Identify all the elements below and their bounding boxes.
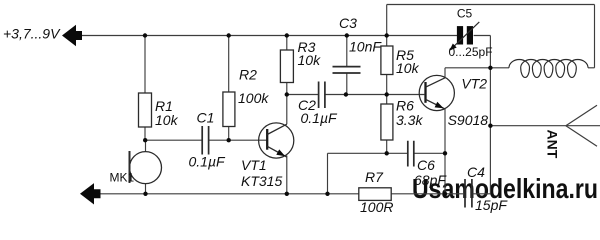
wire mic top stem [145, 140, 147, 151]
node C3/C2 wire [344, 92, 348, 96]
svg-text:ANT: ANT [545, 130, 561, 159]
wire C1 right to VT1 base [209, 139, 267, 141]
wire bottom ground rail left [100, 193, 359, 195]
capacitor C6 plates [408, 141, 414, 167]
wire bottom rail R7 to C4 [391, 193, 464, 195]
node R6/C6 [385, 151, 389, 155]
capacitor C1 plates [202, 126, 208, 155]
wire top loop riser [386, 5, 388, 36]
wire R1 top riser [144, 36, 146, 94]
wire C6 right to emitter [414, 152, 445, 154]
resistor R5 [381, 46, 393, 75]
node collector VT1 [285, 92, 289, 96]
wire R3 top riser [286, 36, 288, 51]
svg-text:KT315: KT315 [241, 173, 282, 189]
svg-text:S9018: S9018 [448, 112, 489, 128]
trimmer C5 adjustment arrow [449, 22, 479, 51]
wire R1 bottom to base wire [144, 127, 146, 140]
node R1/C1/mic [143, 138, 147, 142]
svg-text:100R: 100R [360, 199, 393, 213]
svg-text:C6: C6 [417, 157, 435, 173]
transistor VT1 [259, 123, 294, 194]
node antenna tap [488, 124, 492, 128]
node emitter VT2/R7 [443, 192, 447, 196]
svg-text:10k: 10k [396, 60, 420, 76]
wire R2 bottom riser [228, 127, 230, 141]
svg-text:C1: C1 [197, 110, 215, 126]
svg-text:15pF: 15pF [475, 197, 508, 213]
wire top supply rail [81, 35, 458, 37]
wire R6 bottom riser [386, 140, 388, 153]
wire coil right end [588, 67, 595, 69]
antenna ANT symbol [566, 105, 600, 146]
node ground/C6 riser [325, 192, 329, 196]
wire node to R6 top [386, 95, 388, 105]
wire VT2 base horizontal [387, 94, 425, 96]
wire top loop right side down [594, 5, 596, 68]
wire R5 top riser [386, 36, 388, 47]
svg-text:R7: R7 [365, 169, 384, 185]
wire VT2 emitter riser [444, 109, 446, 194]
svg-text:C4: C4 [467, 164, 485, 180]
svg-text:MK1: MK1 [110, 171, 135, 185]
wire base/C1 horizontal (R1 node to C1) [145, 139, 202, 141]
trimmer capacitor C5 plates [457, 26, 473, 44]
svg-text:10k: 10k [155, 112, 179, 128]
svg-text:VT1: VT1 [241, 157, 267, 173]
wire coil left feed [490, 67, 509, 69]
svg-text:+3,7...9V: +3,7...9V [3, 26, 61, 42]
svg-text:0.1µF: 0.1µF [301, 110, 339, 126]
wire C4 right to antenna riser [473, 193, 491, 195]
power arrow +3,7...9V [62, 25, 82, 46]
wire C3 bottom riser [346, 73, 348, 94]
wire R5 bottom to node [386, 75, 388, 95]
node ground/emitter VT1 [285, 192, 289, 196]
wire C6 line left (ground to C6) [328, 152, 408, 154]
svg-text:3.3k: 3.3k [396, 112, 423, 128]
wire mic bottom stem [145, 184, 147, 194]
resistor R2 [223, 92, 235, 127]
resistor R3 [280, 50, 293, 83]
wire ground riser to C6 line [327, 153, 329, 194]
svg-text:C5: C5 [457, 7, 473, 21]
node ground/mic [143, 192, 147, 196]
wire collector node to C2 [287, 94, 319, 96]
ground arrow (left bottom) [80, 183, 101, 204]
svg-text:10nF: 10nF [349, 38, 382, 54]
wire VT2 collector riser [444, 68, 446, 78]
wire C5 feed from rail [474, 35, 491, 37]
svg-text:100k: 100k [238, 90, 269, 106]
wire tank vertical C5-collector-antenna-C4 [489, 36, 491, 194]
wire collector to tank junction [445, 67, 490, 69]
svg-text:C3: C3 [339, 15, 357, 31]
capacitor C2 plates [319, 82, 325, 109]
svg-text:R2: R2 [239, 67, 257, 83]
inductor L1 coil [509, 60, 588, 78]
svg-text:68pF: 68pF [414, 172, 447, 188]
wire R3 bottom / VT1 collector riser [286, 83, 288, 125]
transistor VT2 [419, 75, 454, 110]
node tank collector/coil [488, 66, 492, 70]
capacitor C3 plates [333, 67, 361, 73]
wire R2 top riser [228, 36, 230, 93]
microphone MK1 [130, 151, 162, 184]
resistor R7 [359, 188, 391, 201]
node rail/R1 [143, 33, 147, 37]
node R5/R6/base VT2 [385, 92, 389, 96]
node R2/base VT1 [227, 138, 231, 142]
svg-text:0.1µF: 0.1µF [189, 154, 227, 170]
node rail/R3 [285, 33, 289, 37]
wire C3 top riser [346, 36, 348, 67]
node rail/C3 [345, 33, 349, 37]
wire antenna horizontal [490, 125, 565, 127]
svg-text:10k: 10k [298, 52, 322, 68]
node rail/R2 [227, 33, 231, 37]
svg-text:VT2: VT2 [461, 75, 487, 91]
node rail/R5 [385, 33, 389, 37]
resistor R1 [139, 93, 152, 127]
node C6/emitter VT2 [443, 151, 447, 155]
capacitor C4 plates [465, 179, 472, 208]
wire top loop horizontal [387, 4, 595, 6]
resistor R6 [381, 104, 393, 140]
wire C2 right to VT2 base node [325, 94, 387, 96]
svg-text:0...25pF: 0...25pF [449, 45, 493, 59]
